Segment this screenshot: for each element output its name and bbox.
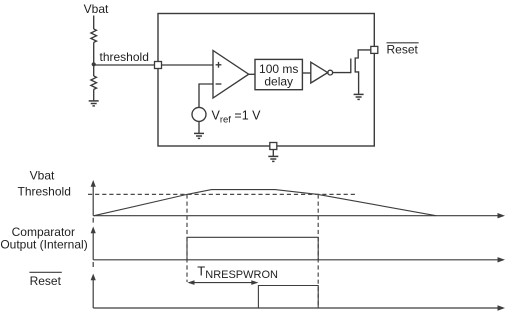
threshold level dashed line <box>88 193 357 195</box>
voltage source Vref circle <box>192 107 206 121</box>
label T NRESPWRON <box>197 264 278 282</box>
wire input port to comparator + input <box>162 64 214 66</box>
delay block label <box>259 62 298 89</box>
waveform 2 vertical axis <box>92 218 94 223</box>
ground below R2 <box>89 101 99 106</box>
label Vbat (waveform 1) <box>30 169 55 183</box>
waveform 1 vertical axis <box>92 187 94 216</box>
wire R2 to ground <box>93 89 95 100</box>
label Reset with overline (waveform 3) <box>30 274 62 288</box>
op-amp comparator U1 <box>213 51 249 99</box>
svg-text:Reset: Reset <box>387 43 419 57</box>
svg-text:Output (Internal): Output (Internal) <box>0 237 87 251</box>
svg-text:Reset: Reset <box>30 274 62 288</box>
label Reset with overline <box>387 43 419 57</box>
inverter output bubble <box>328 70 333 75</box>
waveform 2 horizontal axis <box>93 259 498 261</box>
comparator - input marker <box>216 83 222 85</box>
svg-text:delay: delay <box>264 75 293 89</box>
svg-text:Vbat: Vbat <box>84 2 109 16</box>
waveform 3 Reset pulse <box>258 286 318 309</box>
wire ground port down <box>272 150 274 156</box>
wire comparator - input to Vref <box>199 84 213 107</box>
svg-text:Threshold: Threshold <box>18 185 71 199</box>
port threshold input (square pin) <box>155 62 162 69</box>
node threshold junction dot <box>92 62 96 66</box>
waveform 3 horizontal axis <box>93 307 498 309</box>
wire threshold node to resistor R2 <box>93 64 95 76</box>
label Comparator Output (Internal) <box>0 225 87 251</box>
port Reset output (square pin) <box>371 46 378 53</box>
port ground (square pin on bottom edge) <box>270 143 277 150</box>
wire R1 to threshold node <box>93 42 95 64</box>
delay block U2 box <box>255 59 302 89</box>
svg-text:threshold: threshold <box>100 50 149 64</box>
wire Vref to ground <box>198 121 200 132</box>
node threshold label <box>100 50 149 64</box>
ground below Vref <box>194 133 204 138</box>
waveform 3 vertical axis <box>92 262 94 267</box>
dashed marker line at second threshold crossing <box>317 194 319 307</box>
wire inverter to transistor gate <box>333 72 351 74</box>
waveform 2 comparator output pulse <box>187 237 318 259</box>
wire Vbat to resistor R1 <box>93 16 95 30</box>
waveform 1 horizontal axis <box>93 215 498 217</box>
comparator + input marker <box>216 64 222 66</box>
resistor R1 <box>91 29 97 42</box>
transistor Q1 channel drain source <box>355 50 371 94</box>
IC boundary box <box>158 14 374 147</box>
wire delay block to inverter <box>302 72 310 74</box>
svg-text:Vbat: Vbat <box>30 169 55 183</box>
waveform 1 Vbat ramp trace <box>94 190 436 216</box>
transistor Q1 gate plate <box>350 59 352 74</box>
wire threshold node to input port <box>94 64 155 66</box>
dimension arrow T NRESPWRON <box>189 282 257 284</box>
ground below transistor Q1 <box>354 94 364 99</box>
label Vref = 1 V <box>212 109 262 126</box>
wire comparator output to delay block <box>249 73 255 75</box>
inverter U3 <box>311 62 328 83</box>
ground below bottom port <box>268 156 278 161</box>
node Vbat label <box>84 2 109 16</box>
dashed marker line at first threshold crossing <box>186 194 188 282</box>
label Threshold (waveform 1) <box>18 185 71 199</box>
resistor R2 <box>91 76 97 89</box>
